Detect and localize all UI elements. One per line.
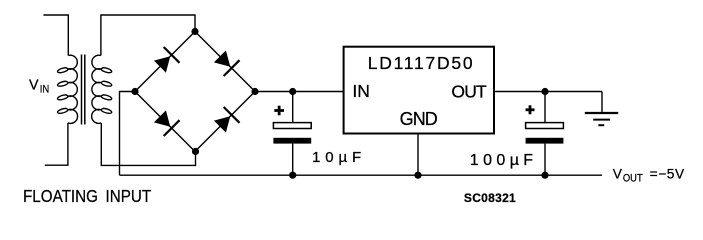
- svg-text:=−5V: =−5V: [650, 167, 685, 182]
- node C1 bottom junction: [289, 172, 296, 179]
- ground: [585, 113, 618, 125]
- wire secondary top to bridge AC node: [101, 15, 195, 56]
- diode D4 (bottom AC node to positive node): [214, 107, 240, 133]
- node bridge top AC node: [191, 28, 198, 35]
- transformer T1 primary winding: [58, 55, 78, 123]
- wire primary top stub: [43, 15, 68, 56]
- svg-text:OUT: OUT: [623, 173, 643, 185]
- svg-text:LD1117D50: LD1117D50: [368, 53, 473, 73]
- node GND junction: [414, 172, 421, 179]
- node bridge bottom AC node: [192, 148, 199, 155]
- wire bottom rail (VOUT = -5V): [120, 174, 603, 176]
- diode D3 (negative node to bottom AC node): [154, 110, 180, 136]
- label VIN: [29, 78, 49, 96]
- node bridge positive node: [251, 88, 258, 95]
- node C2 top junction: [541, 88, 548, 95]
- wire bridge edge upper-left: [135, 32, 195, 92]
- transformer T1 core: [82, 55, 85, 125]
- svg-text:V: V: [29, 78, 39, 94]
- svg-text:100µF: 100µF: [470, 152, 538, 169]
- wire secondary bottom to bridge AC node: [101, 123, 195, 165]
- wire ground drop: [601, 92, 603, 113]
- wire bridge edge upper-right: [195, 32, 255, 92]
- svg-text:OUT: OUT: [451, 82, 487, 102]
- wire C1 top lead: [292, 92, 294, 123]
- wire C2 top lead: [544, 92, 546, 123]
- svg-text:IN: IN: [352, 81, 370, 101]
- svg-text:GND: GND: [400, 109, 438, 129]
- wire bridge edge lower-right: [195, 92, 255, 152]
- diode D2 (top AC node to positive node): [214, 50, 240, 76]
- capacitor C1 10uF polarity plus: [274, 106, 284, 116]
- wire C1 bottom lead: [292, 144, 294, 176]
- svg-text:FLOATING INPUT: FLOATING INPUT: [23, 186, 151, 206]
- node bridge negative node: [131, 88, 138, 95]
- label VOUT = -5V: [613, 167, 685, 185]
- capacitor C2 100uF: [526, 123, 564, 144]
- wire bridge positive node to IN pin: [255, 91, 344, 93]
- wire primary bottom stub: [45, 123, 68, 165]
- wire GND pin to rail: [417, 134, 419, 176]
- diode D1 (negative node to top AC node): [154, 47, 180, 73]
- wire bridge edge lower-left: [135, 92, 195, 152]
- capacitor C1 10uF: [273, 123, 311, 144]
- svg-text:10µF: 10µF: [312, 149, 366, 166]
- svg-text:IN: IN: [40, 84, 50, 96]
- wire C2 bottom lead: [544, 144, 546, 176]
- regulator U1 LD1117D50 body: [344, 47, 494, 134]
- svg-text:V: V: [613, 167, 623, 182]
- node C1 top junction: [289, 88, 296, 95]
- wire OUT pin to ground: [494, 91, 602, 93]
- capacitor C2 100uF polarity plus: [526, 105, 535, 114]
- wire bridge negative node to bottom rail: [120, 92, 136, 176]
- transformer T1 secondary winding: [92, 55, 112, 123]
- svg-text:SC08321: SC08321: [464, 191, 516, 205]
- node C2 bottom junction: [541, 172, 548, 179]
